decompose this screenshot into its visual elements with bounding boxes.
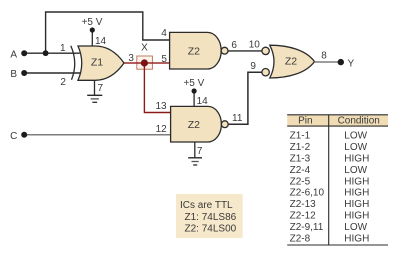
negative-OR gate Z2 (right) (262, 45, 315, 78)
ground for Z1 (87, 80, 102, 102)
+5 V supply for bottom Z2 (183, 78, 204, 106)
svg-text:7: 7 (197, 146, 203, 157)
node X highlight box (137, 56, 153, 69)
wire A input (26, 52, 80, 54)
svg-text:4: 4 (161, 28, 167, 39)
svg-text:+5 V: +5 V (82, 17, 103, 28)
svg-text:LOW: LOW (344, 222, 367, 233)
svg-text:7: 7 (98, 83, 104, 94)
wire X down to Z2 pin13 (red) (144, 63, 170, 113)
svg-text:Z1: 74LS86: Z1: 74LS86 (185, 212, 237, 223)
svg-text:13: 13 (155, 101, 167, 112)
svg-text:HIGH: HIGH (344, 176, 369, 187)
NAND gate Z2 (top) (170, 32, 228, 69)
svg-text:Z2-13: Z2-13 (290, 199, 317, 210)
wire B input (26, 72, 80, 74)
svg-text:Z2-5: Z2-5 (290, 176, 311, 187)
svg-text:8: 8 (321, 51, 327, 62)
svg-text:2: 2 (60, 77, 66, 88)
svg-text:C: C (10, 131, 17, 142)
svg-text:Z1-3: Z1-3 (290, 154, 311, 165)
svg-text:Z2: Z2 (285, 55, 297, 67)
NAND gate Z2 (bottom) (171, 106, 229, 142)
svg-text:Z1-1: Z1-1 (290, 131, 311, 142)
svg-text:3: 3 (128, 53, 134, 64)
svg-text:HIGH: HIGH (344, 211, 369, 222)
svg-text:Z1-2: Z1-2 (290, 142, 311, 153)
node Y terminal dot (338, 59, 344, 65)
svg-text:HIGH: HIGH (344, 233, 369, 244)
svg-text:Y: Y (347, 58, 354, 69)
svg-text:Z2-6,10: Z2-6,10 (290, 188, 325, 199)
svg-text:Z2-9,11: Z2-9,11 (290, 222, 324, 233)
svg-text:12: 12 (156, 124, 168, 135)
note box: ICs are TTL (176, 194, 243, 238)
svg-text:Pin: Pin (298, 115, 312, 126)
wire Z2 pin6 to pin10 (228, 50, 262, 52)
svg-text:LOW: LOW (344, 165, 367, 176)
svg-text:Condition: Condition (338, 115, 380, 126)
svg-text:Z1: Z1 (91, 57, 103, 69)
svg-text:6: 6 (231, 40, 237, 51)
+5 V supply for Z1 (82, 17, 103, 46)
svg-text:Z2-12: Z2-12 (290, 211, 317, 222)
wire C input (26, 134, 171, 136)
svg-text:14: 14 (197, 96, 209, 107)
svg-text:LOW: LOW (344, 131, 367, 142)
svg-text:A: A (10, 49, 17, 60)
svg-text:9: 9 (250, 61, 256, 72)
svg-text:Z2-8: Z2-8 (290, 233, 311, 244)
table: pin conditions (287, 115, 388, 245)
svg-text:HIGH: HIGH (344, 154, 369, 165)
svg-text:11: 11 (232, 113, 243, 124)
ground for bottom Z2 (188, 142, 202, 165)
svg-text:Z2: 74LS00: Z2: 74LS00 (185, 224, 237, 235)
wire junction A to top rail to pin 4 (46, 12, 170, 53)
node B terminal dot (21, 70, 27, 76)
svg-text:Z2-4: Z2-4 (290, 165, 311, 176)
junction dot on A wire (43, 50, 49, 56)
svg-text:LOW: LOW (344, 142, 367, 153)
svg-text:Z2: Z2 (188, 46, 200, 58)
svg-text:14: 14 (95, 36, 107, 47)
wire Z2 pin11 to pin9 (228, 72, 262, 124)
node A terminal dot (21, 50, 27, 56)
wire Z1 pin3 to X to Z2 pin5 (red) (124, 62, 170, 64)
svg-text:5: 5 (161, 54, 167, 65)
svg-text:10: 10 (249, 40, 261, 51)
svg-text:X: X (141, 43, 148, 54)
svg-text:HIGH: HIGH (344, 188, 369, 199)
svg-text:+5 V: +5 V (183, 78, 204, 89)
XOR gate Z1 (71, 46, 124, 81)
node X dot (141, 43, 148, 67)
svg-text:ICs are TTL: ICs are TTL (180, 200, 233, 211)
svg-text:B: B (10, 69, 17, 80)
node C terminal dot (21, 132, 27, 138)
svg-text:1: 1 (60, 43, 66, 54)
svg-text:Z2: Z2 (188, 119, 200, 131)
wire pin8 to Y (315, 61, 339, 63)
svg-text:HIGH: HIGH (344, 199, 369, 210)
